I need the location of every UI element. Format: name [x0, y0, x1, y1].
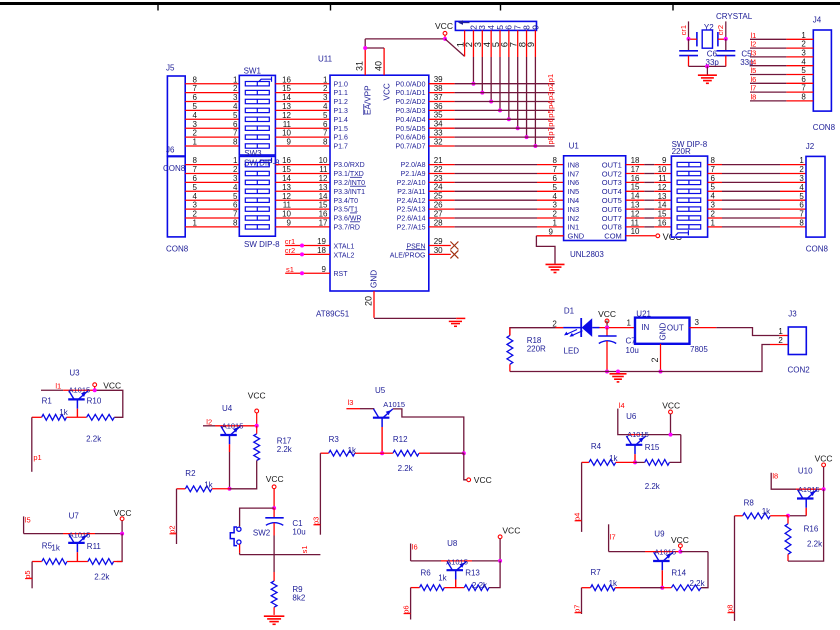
svg-text:SW DIP-8: SW DIP-8 [244, 159, 280, 168]
wire SW3 pin 9 to U11 P3.7 [275, 226, 330, 228]
svg-text:13: 13 [658, 192, 667, 201]
svg-text:R8: R8 [744, 499, 755, 508]
wire R3 to base [355, 452, 382, 454]
svg-text:8: 8 [233, 138, 238, 147]
power VCC at U8 [498, 535, 502, 561]
svg-text:CON2: CON2 [788, 365, 811, 374]
resistor R17 top lead [256, 426, 258, 434]
svg-text:p5: p5 [546, 109, 555, 117]
connector J2 [806, 156, 825, 237]
svg-text:R12: R12 [393, 435, 408, 444]
resistor R10 [87, 414, 115, 420]
svg-text:R2: R2 [185, 469, 196, 478]
svg-text:VCC: VCC [103, 380, 121, 390]
svg-text:p7: p7 [546, 127, 555, 135]
svg-text:13: 13 [282, 102, 291, 111]
ground at U11 pin 20 [449, 321, 462, 326]
wire U9 VCC branch down to R14 [680, 552, 708, 588]
wire ground rail [510, 371, 661, 373]
resistor pack pin 6 lead [508, 30, 510, 119]
transistor U6 A1015 [626, 436, 646, 454]
dip switch SW3 [239, 156, 275, 236]
svg-text:8: 8 [711, 156, 716, 165]
svg-text:15: 15 [319, 201, 328, 210]
wire U5 emitter to VCC net [393, 409, 464, 453]
SW3 rocker 6 [245, 207, 269, 211]
svg-text:A1015: A1015 [383, 400, 405, 409]
power VCC at U7 [120, 517, 124, 534]
junction RP pin 8 to P0.6 [525, 135, 529, 139]
resistor R2 [185, 486, 212, 492]
svg-text:15: 15 [631, 183, 640, 192]
svg-text:7: 7 [553, 165, 558, 174]
svg-text:RST: RST [334, 271, 349, 278]
wire net l7 to U9 [609, 524, 681, 551]
svg-text:37: 37 [434, 93, 443, 102]
svg-text:CON8: CON8 [813, 123, 836, 132]
wire P2.4 to U1 IN4 [429, 199, 564, 201]
svg-text:R9: R9 [292, 585, 303, 594]
wire R9 to ground [273, 607, 275, 615]
wire cr2 to crystal [725, 21, 727, 38]
svg-text:19: 19 [317, 237, 326, 246]
diode D1 LED [563, 318, 599, 337]
svg-text:1k: 1k [762, 507, 771, 516]
svg-text:13: 13 [282, 183, 291, 192]
wire VCC to SW2 [240, 508, 275, 526]
wire J3 pin 2 to ground rail [661, 345, 789, 372]
svg-text:3: 3 [323, 93, 328, 102]
svg-text:l3: l3 [751, 49, 757, 58]
svg-text:l5: l5 [25, 515, 31, 524]
svg-text:P2.7/A15: P2.7/A15 [397, 225, 426, 232]
svg-text:4: 4 [193, 192, 198, 201]
svg-text:2.2k: 2.2k [472, 581, 488, 590]
U11 pin 31 EA/VPP wire [364, 39, 366, 75]
wire base corner to junction [788, 515, 806, 517]
svg-text:R1: R1 [42, 397, 53, 406]
svg-text:P1.6: P1.6 [334, 135, 349, 142]
junction cr2 [300, 252, 304, 256]
svg-text:1: 1 [799, 156, 804, 165]
junction crystal right [724, 37, 728, 41]
svg-text:29: 29 [434, 237, 443, 246]
wire net l2 to U4 [203, 425, 257, 427]
svg-text:P0.6/AD6: P0.6/AD6 [396, 135, 426, 142]
wire SW3 pin 14 to U11 P3.2 [275, 181, 330, 183]
svg-text:A1015: A1015 [446, 557, 468, 566]
svg-text:8: 8 [233, 219, 238, 228]
svg-text:l6: l6 [412, 543, 418, 552]
wire J6 pin 3 to SW3 pin 6 [185, 208, 239, 210]
svg-text:12: 12 [631, 209, 640, 218]
svg-text:ALE/PROG: ALE/PROG [390, 252, 426, 259]
svg-text:1: 1 [193, 219, 198, 228]
wire U1 OUT2 to pack pin 10 [626, 173, 672, 175]
wire J5 pin 3 to SW1 pin 6 [185, 127, 239, 129]
wire SW3 pin 12 to U11 P3.4 [275, 199, 330, 201]
wire net l4 to J4 pin 4 [750, 65, 813, 67]
wire J6 pin 5 to SW3 pin 4 [185, 190, 239, 192]
wire SW2 to s1 row [239, 544, 241, 554]
junction crystal left [687, 37, 691, 41]
svg-text:CON8: CON8 [806, 245, 829, 254]
svg-text:l5: l5 [751, 66, 757, 75]
wire U1 OUT8 to pack pin 16 [626, 226, 672, 228]
svg-text:7: 7 [233, 210, 238, 219]
svg-text:R13: R13 [465, 569, 480, 578]
svg-text:8k2: 8k2 [292, 594, 305, 603]
SW3 pin-1 marker [259, 158, 272, 163]
svg-text:3: 3 [193, 201, 198, 210]
svg-text:UNL2803: UNL2803 [570, 250, 604, 259]
wire net l5 to J4 pin 5 [750, 74, 813, 76]
svg-text:A1015: A1015 [654, 547, 676, 556]
no-connect X on ALE/PROG [450, 250, 458, 258]
connector J3 [788, 327, 806, 355]
SW3 rocker 2 [245, 171, 269, 175]
svg-text:4: 4 [711, 192, 716, 201]
svg-text:9: 9 [322, 265, 327, 274]
transistor U9 A1015 [653, 552, 673, 570]
svg-text:220R: 220R [527, 345, 546, 354]
svg-text:23: 23 [434, 174, 443, 183]
wire R4 to base [616, 461, 635, 463]
wire net l2 to J4 pin 2 [750, 47, 813, 49]
wire R16 bottom to VCC line [788, 489, 824, 561]
svg-text:P0.1/AD1: P0.1/AD1 [396, 90, 426, 97]
wire LED to U21 IN [600, 327, 636, 329]
svg-text:28: 28 [434, 218, 443, 227]
svg-text:14: 14 [319, 192, 328, 201]
svg-text:l4: l4 [619, 401, 625, 410]
svg-text:26: 26 [434, 201, 443, 210]
svg-text:4: 4 [193, 111, 198, 120]
svg-text:8: 8 [799, 219, 804, 228]
junction U9 VCC [678, 550, 682, 554]
svg-text:16: 16 [631, 174, 640, 183]
U11 pin name EA/VPP rotated with overline [364, 85, 373, 115]
wire R12 to junction [419, 452, 464, 454]
wire 220R pack pin 5 to J2 pin 4 [708, 190, 806, 192]
svg-text:U10: U10 [798, 466, 813, 475]
svg-text:EA/VPP: EA/VPP [364, 85, 373, 115]
svg-text:P0.5/AD5: P0.5/AD5 [396, 126, 426, 133]
wire net l3 to U5 [346, 408, 374, 410]
resistor pack pin 8 lead [526, 30, 528, 137]
svg-text:IN4: IN4 [568, 196, 580, 205]
junction U3 VCC [93, 388, 97, 392]
svg-text:36: 36 [434, 102, 443, 111]
svg-text:10: 10 [282, 129, 291, 138]
junction U21 pin 2 [659, 370, 663, 374]
resistor R15 [645, 460, 670, 466]
junction C7 bottom [605, 370, 609, 374]
svg-text:7: 7 [233, 129, 238, 138]
no-connect X on PSEN [450, 242, 458, 250]
transistor U10 A1015 [797, 490, 817, 508]
wire diagonal VCC to RP1 pin 1 [445, 39, 465, 57]
svg-text:GND: GND [370, 270, 379, 288]
svg-text:2: 2 [650, 357, 660, 362]
wire R4 left to net p4 [582, 462, 589, 532]
svg-text:l1: l1 [55, 381, 61, 390]
U11 pin name P3.1/TXD [334, 171, 364, 178]
wire P2.7 to U1 IN1 [429, 226, 564, 228]
svg-text:14: 14 [631, 192, 640, 201]
220R pack rocker 2 [677, 171, 701, 175]
svg-text:IN: IN [641, 323, 649, 332]
resistor R7 [591, 585, 616, 591]
SW1 rocker 7 [245, 135, 269, 139]
svg-text:CRYSTAL: CRYSTAL [716, 12, 753, 21]
wire net cr1 to XTAL1 [285, 245, 330, 247]
U11 pin 20 GND wire [374, 291, 465, 318]
resistor R6 [420, 585, 445, 591]
svg-text:5: 5 [193, 102, 198, 111]
svg-text:6: 6 [323, 120, 328, 129]
wire P0.2 net p3 [429, 101, 555, 103]
wire SW1 pin 15 to U11 P1.1 [275, 92, 330, 94]
svg-text:U3: U3 [69, 369, 80, 378]
resistor R11 [88, 559, 114, 565]
wire SW1 pin 9 to U11 P1.7 [275, 145, 330, 147]
svg-text:5: 5 [233, 192, 238, 201]
svg-text:R15: R15 [645, 443, 660, 452]
wire J6 pin 8 to SW3 pin 1 [185, 164, 239, 166]
U11 pin name P3.6/WR [334, 216, 362, 223]
svg-text:2.2k: 2.2k [690, 579, 706, 588]
wire 220R pack pin 8 to J2 pin 1 [708, 164, 806, 166]
wire SW1 pin 16 to U11 P1.0 [275, 83, 330, 85]
wire J5 pin 8 to SW1 pin 1 [185, 83, 239, 85]
svg-text:6: 6 [801, 75, 806, 84]
svg-text:p7: p7 [573, 605, 582, 613]
svg-text:p2: p2 [546, 83, 555, 91]
wire P2.2 to U1 IN6 [429, 181, 564, 183]
svg-text:OUT6: OUT6 [602, 205, 622, 214]
svg-text:2.2k: 2.2k [94, 572, 110, 581]
svg-text:16: 16 [282, 156, 291, 165]
wire stub to crystal ground [706, 66, 708, 75]
svg-text:40: 40 [374, 61, 384, 71]
svg-text:1k: 1k [51, 544, 60, 553]
svg-text:P1.5: P1.5 [334, 126, 349, 133]
svg-text:P1.2: P1.2 [334, 99, 349, 106]
wire P2.0 to U1 IN8 [429, 164, 564, 166]
svg-text:P2.6/A14: P2.6/A14 [397, 216, 426, 223]
wire U1 OUT5 to pack pin 13 [626, 199, 672, 201]
SW1 rocker 5 [245, 117, 269, 121]
svg-text:l8: l8 [772, 471, 778, 480]
svg-text:16: 16 [282, 75, 291, 84]
wire J5 pin 5 to SW1 pin 4 [185, 109, 239, 111]
resistor R1 [42, 414, 67, 420]
svg-text:P3.0/RXD: P3.0/RXD [334, 162, 365, 169]
svg-text:2.2k: 2.2k [86, 435, 102, 444]
svg-text:5: 5 [193, 183, 198, 192]
SW3 rocker 5 [245, 198, 269, 202]
svg-text:C1: C1 [292, 519, 303, 528]
transistor U5 A1015 [373, 409, 393, 427]
transistor U7 base lead [76, 552, 78, 561]
svg-text:11: 11 [283, 120, 292, 129]
junction RP pin 4 to P0.2 [489, 100, 493, 104]
svg-text:8: 8 [553, 156, 558, 165]
svg-text:18: 18 [317, 246, 326, 255]
svg-text:1k: 1k [438, 574, 447, 583]
svg-text:12: 12 [319, 174, 328, 183]
svg-text:SW2: SW2 [253, 528, 271, 537]
wire U6 VCC branch down to R15 [669, 435, 680, 463]
svg-text:R6: R6 [421, 569, 432, 578]
svg-text:11: 11 [319, 165, 328, 174]
junction s1 [300, 271, 304, 275]
wire R5 to base [67, 561, 88, 563]
svg-text:12: 12 [658, 183, 667, 192]
wire base to R12 [382, 452, 393, 454]
crystal Y2 symbol [697, 30, 718, 48]
svg-text:9: 9 [549, 227, 554, 236]
svg-text:R14: R14 [671, 569, 686, 578]
resistor pack pin 1 lead [464, 30, 466, 56]
junction VCC rail [605, 326, 609, 330]
svg-text:p6: p6 [402, 605, 411, 613]
svg-text:6: 6 [193, 93, 198, 102]
resistor pack pin 7 lead [517, 30, 519, 128]
svg-text:35: 35 [434, 111, 443, 120]
svg-text:34: 34 [434, 120, 443, 129]
svg-text:17: 17 [319, 219, 328, 228]
svg-text:5: 5 [711, 183, 716, 192]
svg-text:VCC: VCC [598, 309, 616, 319]
svg-text:8: 8 [801, 93, 806, 102]
resistor R14 [671, 585, 701, 591]
SW1 rocker 6 [245, 126, 269, 130]
svg-text:P1.0: P1.0 [334, 81, 349, 88]
wire J6 pin 1 to SW3 pin 8 [185, 226, 239, 228]
svg-text:OUT1: OUT1 [602, 160, 622, 169]
wire U8 VCC branch down [489, 561, 500, 588]
wire P0.5 net p6 [429, 127, 555, 129]
svg-text:P2.2/A10: P2.2/A10 [397, 180, 426, 187]
svg-text:U8: U8 [447, 539, 458, 548]
driver U1 body [564, 156, 626, 241]
transistor U4 base lead [229, 444, 231, 489]
svg-text:10: 10 [658, 165, 667, 174]
svg-text:2: 2 [323, 84, 328, 93]
sheet top border [0, 4, 840, 11]
wire SW1 pin 12 to U11 P1.4 [275, 118, 330, 120]
svg-text:2: 2 [553, 210, 558, 219]
wire R8 to junction [770, 515, 788, 517]
connector J6 [167, 157, 185, 237]
transistor U8 A1015 [447, 561, 467, 579]
svg-text:IN1: IN1 [568, 223, 580, 232]
svg-text:R16: R16 [804, 524, 819, 533]
resistor R9 [271, 581, 277, 607]
resistor pack pin 2 lead [472, 30, 474, 83]
svg-text:J6: J6 [166, 145, 175, 154]
220R pack rocker 3 [677, 180, 701, 184]
wire net l5 to U7 [24, 516, 123, 533]
svg-text:2: 2 [233, 84, 238, 93]
svg-text:9: 9 [530, 25, 540, 30]
svg-text:VCC: VCC [502, 525, 520, 535]
svg-text:IN7: IN7 [568, 169, 580, 178]
junction RP pin 2 to P0.0 [471, 82, 475, 86]
wire J5 pin 4 to SW1 pin 5 [185, 118, 239, 120]
svg-text:U9: U9 [654, 530, 665, 539]
wire cr1 to crystal [688, 21, 690, 38]
junction cr1 [300, 244, 304, 248]
svg-text:R4: R4 [591, 442, 602, 451]
svg-text:U6: U6 [626, 412, 637, 421]
220R pack rocker 4 [677, 189, 701, 193]
power VCC at reset [272, 485, 276, 508]
wire J5 pin 1 to SW1 pin 8 [185, 145, 239, 147]
svg-text:6: 6 [193, 174, 198, 183]
svg-text:P2.3/A11: P2.3/A11 [397, 189, 425, 196]
wire s1 row to R9 [273, 555, 275, 581]
svg-text:A1015: A1015 [798, 485, 820, 494]
svg-text:s1: s1 [286, 265, 294, 274]
wire R3 left to net p3 [320, 453, 328, 535]
svg-text:13: 13 [319, 183, 328, 192]
svg-text:P1.4: P1.4 [334, 117, 349, 124]
wire J5 pin 2 to SW1 pin 7 [185, 136, 239, 138]
svg-text:U1: U1 [569, 141, 580, 150]
connector J5 [167, 76, 185, 156]
220R pack rocker 1 [677, 162, 701, 166]
svg-text:VCC: VCC [114, 508, 132, 518]
resistor pack pin 3 lead [481, 30, 483, 92]
transistor U7 A1015 [68, 534, 88, 552]
svg-text:3: 3 [233, 93, 238, 102]
wire net l4 to U6 [618, 409, 681, 435]
U11 pin 40 VCC wire [365, 48, 384, 75]
svg-text:6: 6 [799, 201, 804, 210]
svg-text:GND: GND [659, 323, 668, 341]
svg-text:11: 11 [658, 174, 667, 183]
wire SW3 pin 11 to U11 P3.5 [275, 208, 330, 210]
svg-text:l7: l7 [751, 84, 757, 93]
svg-text:8: 8 [323, 138, 328, 147]
svg-text:1k: 1k [609, 454, 618, 463]
svg-text:P2.1/A9: P2.1/A9 [401, 171, 426, 178]
svg-text:cr2: cr2 [285, 246, 295, 255]
svg-text:OUT4: OUT4 [602, 187, 622, 196]
svg-text:5: 5 [553, 183, 558, 192]
svg-text:IN5: IN5 [568, 187, 580, 196]
svg-text:30: 30 [434, 246, 443, 255]
svg-text:p4: p4 [546, 101, 555, 109]
svg-text:24: 24 [434, 183, 443, 192]
svg-text:P0.2/AD2: P0.2/AD2 [396, 99, 426, 106]
svg-text:4: 4 [233, 183, 238, 192]
transistor U5 base lead [381, 427, 383, 453]
svg-text:P0.3/AD3: P0.3/AD3 [396, 108, 426, 115]
wire SW3 pin 10 to U11 P3.6 [275, 217, 330, 219]
wire J6 pin 4 to SW3 pin 5 [185, 199, 239, 201]
wire crystal caps bottom [689, 65, 726, 67]
wire U1 OUT1 to pack pin 9 [626, 164, 672, 166]
switch SW2 pushbutton [230, 527, 241, 546]
ground at crystal [698, 75, 717, 83]
transistor U3 base lead [76, 409, 78, 418]
wire J5 pin 6 to SW1 pin 3 [185, 101, 239, 103]
wire net l7 to J4 pin 7 [750, 91, 813, 93]
